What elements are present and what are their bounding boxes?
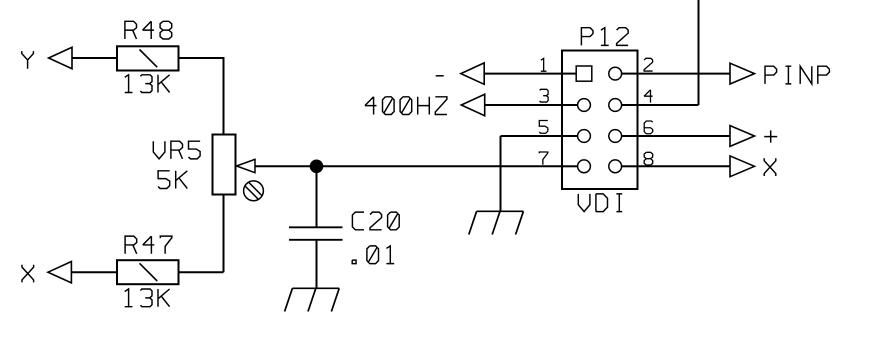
net label Y	[22, 51, 34, 69]
net label PINP	[765, 66, 829, 84]
junction node	[310, 160, 323, 173]
label VDI	[578, 194, 622, 212]
ground below C20	[292, 287, 339, 289]
wire pin1 to minus port	[485, 73, 563, 75]
wire junction to P12 pin7	[317, 165, 563, 167]
pin 5 pad	[578, 130, 591, 143]
pin 1 pad (square)	[576, 66, 592, 81]
wire pin5 to ground	[501, 135, 563, 137]
capacitor C20	[289, 226, 343, 228]
resistor R48	[117, 46, 179, 70]
pin number 3	[540, 89, 549, 102]
port PINP arrow	[730, 63, 755, 84]
wire pin8 to X port	[638, 165, 731, 167]
wire VR5 bottom to R47	[223, 195, 225, 273]
wire X to R47	[71, 271, 117, 273]
value 5K (VR5)	[158, 171, 187, 189]
pin 4 pad	[609, 99, 622, 112]
net label X (right)	[764, 158, 776, 176]
pin 8 pad	[609, 160, 622, 173]
pin number 6	[644, 121, 653, 134]
ground below pin5	[477, 210, 524, 212]
pin number 7	[539, 152, 548, 165]
pin number 8	[644, 152, 653, 165]
port 400HZ arrow	[461, 94, 484, 115]
potentiometer VR5 body	[213, 135, 236, 195]
net label X	[22, 265, 34, 283]
port plus arrow	[730, 126, 755, 147]
port X arrow	[730, 156, 755, 177]
value 13K (R48)	[125, 75, 170, 93]
pin 3 pad	[578, 99, 591, 112]
pin number 2	[644, 58, 653, 71]
wire C20 to ground	[316, 240, 318, 288]
port X arrow	[48, 262, 71, 283]
wire pin3 to 400HZ port	[485, 104, 562, 106]
wire pin2 to PINP port	[638, 73, 731, 75]
label R48	[125, 21, 172, 39]
wire pin4 up off-page	[638, 104, 699, 106]
trimmer screw VR5	[244, 181, 264, 201]
wire wiper to junction	[255, 165, 317, 167]
wire Y to R48	[72, 57, 117, 59]
label R47	[125, 236, 172, 254]
label P12	[581, 28, 628, 46]
pin 6 pad	[609, 130, 622, 143]
value .01 (C20)	[352, 246, 394, 264]
net label plus	[764, 136, 777, 138]
wire R48 to VR5 top	[179, 57, 224, 59]
wire junction to C20	[316, 166, 318, 227]
net label minus	[436, 75, 444, 77]
pin 7 pad	[578, 160, 591, 173]
port minus arrow	[461, 63, 484, 84]
wire pin6 to plus port	[638, 135, 731, 137]
resistor R47	[117, 260, 179, 284]
wiper arrow VR5	[237, 159, 256, 172]
net label 400HZ	[365, 97, 447, 115]
label VR5	[153, 141, 200, 159]
pin number 4	[644, 90, 653, 103]
pin number 5	[539, 121, 548, 134]
value 13K (R47)	[125, 289, 170, 307]
pin 2 pad	[609, 67, 622, 80]
connector P12 outline	[562, 51, 638, 190]
label C20	[352, 212, 399, 230]
port Y arrow	[49, 47, 72, 68]
pin number 1	[541, 58, 547, 71]
